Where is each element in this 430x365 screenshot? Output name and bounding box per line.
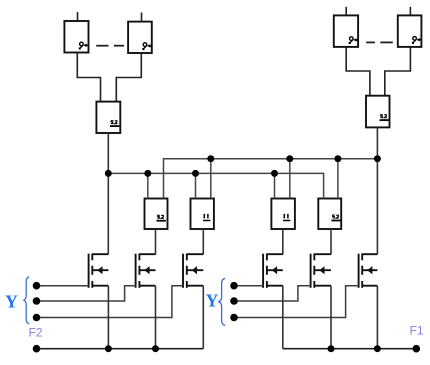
svg-text:F1: F1 [410, 324, 424, 338]
svg-text:Y: Y [206, 291, 219, 311]
svg-text:F2: F2 [29, 326, 43, 340]
svg-text:Y: Y [5, 292, 18, 312]
